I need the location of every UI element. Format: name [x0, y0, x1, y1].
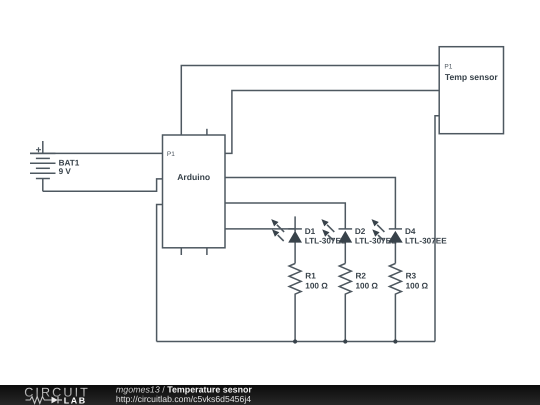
wire Arduino right pin 3 to D2 — [225, 203, 345, 229]
svg-text:R3: R3 — [406, 271, 417, 280]
LED D2 — [321, 219, 352, 263]
svg-text:mgomes13 / Temperature sesnor: mgomes13 / Temperature sesnor — [116, 384, 253, 394]
wire battery+ to Arduino pin P1 — [30, 152, 163, 154]
svg-text:100 Ω: 100 Ω — [406, 282, 429, 291]
svg-text:P1: P1 — [167, 151, 175, 158]
svg-text:P1: P1 — [444, 63, 452, 70]
svg-text:R1: R1 — [305, 271, 316, 280]
junction dot D4 rail — [393, 339, 397, 343]
Arduino top pin 2 stub — [206, 129, 208, 135]
svg-text:Arduino: Arduino — [177, 172, 210, 182]
resistor R1 — [289, 264, 301, 342]
junction dot D2 rail — [343, 339, 347, 343]
wire bottom rail — [157, 341, 435, 343]
svg-text:100 Ω: 100 Ω — [305, 282, 328, 291]
LED D4 triangle — [389, 232, 402, 243]
resistor R2 — [339, 264, 351, 342]
svg-text:LTL-307EE: LTL-307EE — [305, 236, 347, 245]
battery BAT1 — [30, 141, 56, 191]
wire Arduino top pin 1 to Temp sensor pin 1 — [181, 66, 439, 136]
svg-text:LAB: LAB — [64, 396, 87, 405]
LED D1 — [271, 216, 302, 263]
svg-text:LTL-307EE: LTL-307EE — [355, 236, 397, 245]
footer title text — [116, 384, 253, 404]
LED D1 triangle — [289, 232, 301, 243]
svg-text:Temp sensor: Temp sensor — [445, 72, 499, 82]
footer bar — [0, 385, 540, 405]
wire battery- to Arduino left pin 2 — [43, 179, 163, 191]
svg-text:100 Ω: 100 Ω — [356, 282, 379, 291]
resistor R3 — [389, 264, 401, 342]
wire bottom rail up to Temp sensor pin 3 — [435, 116, 439, 342]
svg-text:D2: D2 — [355, 227, 366, 236]
wire Arduino right pin 4 to D1 — [225, 228, 295, 230]
svg-text:D4: D4 — [405, 227, 416, 236]
LED D2 triangle — [339, 232, 351, 243]
Arduino bottom pin stubs — [181, 248, 207, 255]
wire Arduino left pin 3 down to bottom rail — [157, 205, 163, 342]
LED D4 — [372, 219, 403, 263]
svg-text:9 V: 9 V — [59, 167, 72, 176]
junction dot D1 rail — [293, 339, 297, 343]
svg-text:D1: D1 — [305, 227, 316, 236]
module U2 Temp sensor — [439, 47, 503, 134]
wire Arduino right pin 2 to D4 — [225, 178, 395, 229]
svg-text:LTL-307EE: LTL-307EE — [405, 236, 447, 245]
svg-text:http://circuitlab.com/c5vks6d5: http://circuitlab.com/c5vks6d5456j4 — [116, 394, 251, 404]
svg-text:R2: R2 — [356, 271, 367, 280]
CircuitLab logo — [24, 385, 90, 405]
module U1 Arduino — [163, 135, 226, 248]
wire Arduino right pin 1 to Temp sensor pin 2 — [225, 91, 439, 154]
